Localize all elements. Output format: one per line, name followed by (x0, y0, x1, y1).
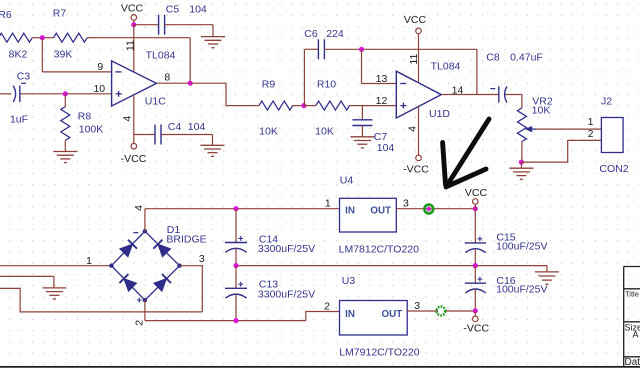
ground below C7 (350, 136, 374, 138)
bridge diode upper-right (158, 244, 171, 257)
svg-text:IN: IN (345, 206, 355, 217)
connector J2 CON2 (601, 118, 623, 153)
svg-text:VCC: VCC (404, 14, 427, 26)
svg-text:CON2: CON2 (599, 163, 628, 175)
wire J2 pin1 to wiper (536, 128, 601, 130)
svg-text:0.47uF: 0.47uF (510, 52, 543, 64)
svg-text:1uF: 1uF (10, 114, 28, 126)
svg-text:R10: R10 (317, 78, 336, 90)
svg-text:3: 3 (199, 253, 205, 265)
bridge pin 3 wire (180, 266, 203, 312)
svg-text:TL084: TL084 (146, 49, 176, 61)
capacitor C5 104 (158, 15, 160, 35)
resistor R6 (0, 33, 32, 42)
svg-text:1: 1 (325, 197, 331, 209)
svg-text:LM7812C/TO220: LM7812C/TO220 (339, 243, 420, 255)
capacitor C13 3300uF/25V (235, 266, 237, 289)
wire feedback top to output (98, 37, 190, 39)
wire feedback right vertical (476, 49, 478, 94)
svg-text:C3: C3 (17, 71, 31, 83)
ground left bottom (42, 287, 66, 289)
bridge pin 2 wire to negative rail (144, 300, 146, 320)
svg-text:4: 4 (407, 126, 419, 132)
capacitor C15 100uF/25V (474, 209, 476, 243)
node junction mid rail C15/C16 (473, 263, 478, 268)
node junction C16 bottom / -VCC (473, 308, 478, 313)
svg-text:2: 2 (324, 301, 330, 313)
svg-text:IN: IN (345, 309, 355, 320)
svg-text:U1C: U1C (145, 95, 166, 107)
VR2 wiper arrow (531, 128, 536, 130)
svg-text:R8: R8 (78, 111, 92, 123)
wire U3 output (407, 310, 475, 312)
bridge diode lower-left (124, 279, 137, 292)
svg-text:U4: U4 (340, 175, 354, 187)
bridge pin 4 wire to positive rail (144, 209, 146, 232)
svg-text:-VCC: -VCC (403, 163, 429, 175)
svg-text:3: 3 (403, 197, 409, 209)
svg-text:R7: R7 (53, 8, 67, 20)
bridge vertex dots (143, 229, 147, 233)
op-amp U1D pin 4 stem to -VCC (418, 106, 420, 155)
svg-text:A: A (633, 329, 639, 339)
svg-text:R9: R9 (262, 78, 276, 90)
bridge diode upper-left (120, 244, 133, 257)
output node junction U1C (188, 81, 193, 86)
wire J2 pin2 (521, 140, 601, 162)
svg-text:9: 9 (97, 61, 103, 73)
svg-text:Title: Title (625, 289, 639, 298)
resistor R9 10K (248, 105, 259, 107)
wire pin 14 output U1D (441, 94, 477, 96)
svg-text:1: 1 (588, 116, 594, 128)
svg-text:C8: C8 (486, 52, 500, 64)
svg-text:10K: 10K (532, 104, 551, 116)
node junction R9/R10/C6 (301, 103, 306, 108)
svg-text:100uF/25V: 100uF/25V (496, 241, 547, 253)
svg-text:100K: 100K (79, 123, 104, 135)
sheet bottom border (0, 366, 640, 368)
svg-text:LM7912C/TO220: LM7912C/TO220 (339, 347, 420, 359)
svg-text:-VCC: -VCC (121, 153, 147, 165)
wire VCC to C5 (134, 24, 159, 26)
node junction feedback/pin13 (359, 47, 364, 52)
capacitor C14 3300uF/25V (233, 206, 238, 211)
capacitor C6 224 feedback (303, 49, 305, 105)
wire pin 8 output (157, 82, 191, 84)
svg-text:13: 13 (376, 73, 388, 85)
svg-text:104: 104 (188, 121, 206, 133)
node A junction R6/R7 (40, 35, 45, 40)
node junction VCC rail (473, 206, 478, 211)
wire node A to pin 9 (41, 38, 43, 72)
svg-text:U1D: U1D (429, 108, 450, 120)
regulator U3 LM7912C (340, 301, 408, 336)
svg-text:C6: C6 (304, 28, 318, 40)
svg-text:BRIDGE: BRIDGE (166, 233, 206, 245)
svg-text:10: 10 (93, 83, 105, 95)
node junction C3/R8/pin10 (63, 91, 68, 96)
node junction VCC/C5/pin11 (131, 22, 136, 27)
svg-text:10K: 10K (315, 125, 334, 137)
svg-text:3: 3 (414, 300, 420, 312)
svg-text:U3: U3 (342, 275, 356, 287)
svg-text:4: 4 (133, 205, 145, 211)
op-amp U1C pin 4 stem to -VCC (133, 95, 135, 144)
svg-text:J2: J2 (601, 95, 612, 107)
power port -VCC below U1C (131, 143, 137, 149)
ground right of mid rail (546, 266, 548, 272)
capacitor C16 100uF/25V (474, 266, 476, 284)
svg-text:104: 104 (377, 142, 395, 154)
svg-text:TL084: TL084 (431, 61, 461, 73)
svg-text:OUT: OUT (370, 206, 391, 217)
node junction C14/C13 (233, 263, 238, 268)
potentiometer VR2 10K (521, 95, 523, 108)
green starburst marker on U3 output (438, 308, 444, 314)
svg-text:VCC: VCC (465, 187, 488, 199)
power port -VCC below U1D (416, 155, 422, 161)
node junction VR2/ground/J2-2 (519, 160, 524, 165)
wire output to R9 (190, 83, 248, 105)
power port -VCC bottom right (474, 311, 476, 316)
negative rail wire (145, 320, 306, 322)
svg-text:C4: C4 (168, 121, 182, 133)
svg-text:224: 224 (326, 28, 344, 40)
ground right of C5 (201, 36, 225, 38)
svg-text:Date: Date (625, 357, 640, 368)
wire U4 output (396, 208, 475, 210)
svg-text:10K: 10K (259, 125, 278, 137)
resistor R7 (42, 37, 53, 39)
ground right of C4 (201, 144, 225, 146)
capacitor C3 1uF (0, 93, 11, 95)
svg-text:3300uF/25V: 3300uF/25V (258, 243, 315, 255)
hand-drawn black arrow annotation (443, 119, 489, 187)
svg-text:100uF/25V: 100uF/25V (496, 284, 547, 296)
capacitor C7 104 (361, 106, 363, 120)
resistor R10 10K (304, 105, 316, 107)
wire AC input 1 to bridge (0, 265, 111, 267)
svg-text:VCC: VCC (121, 3, 144, 15)
positive rail wire to U4 (145, 208, 340, 210)
ground below R8 (53, 151, 77, 153)
svg-text:C5: C5 (166, 4, 180, 16)
svg-text:-VCC: -VCC (463, 322, 489, 334)
op-amp U1C pin 11 stem (133, 25, 135, 73)
svg-text:3300uF/25V: 3300uF/25V (258, 289, 315, 301)
op-amp U1D pin 11 stem (418, 34, 420, 83)
title block frame (624, 267, 640, 367)
svg-text:11: 11 (124, 40, 136, 51)
capacitor C8 0.47uF (477, 94, 499, 96)
bridge diode lower-right (154, 279, 167, 292)
svg-text:R6: R6 (0, 9, 12, 21)
svg-text:1: 1 (86, 255, 92, 267)
wire R10 to pin 12 (362, 105, 396, 107)
svg-text:39K: 39K (54, 49, 73, 61)
power port VCC right (474, 204, 476, 208)
svg-text:104: 104 (189, 4, 207, 16)
capacitor C4 104 (134, 134, 155, 136)
svg-text:11: 11 (408, 53, 420, 64)
svg-text:2: 2 (133, 320, 145, 326)
bridge rectifier D1 (111, 231, 179, 300)
node junction negative rail C13 (233, 318, 238, 323)
svg-text:12: 12 (376, 95, 388, 107)
green marker on U4 output (424, 205, 433, 214)
resistor R8 100K (64, 94, 66, 107)
bridge polarity marks (133, 232, 138, 234)
wire C3 to pin 10 (65, 93, 111, 95)
svg-text:8: 8 (164, 72, 170, 84)
wire AC input to ground (0, 275, 54, 277)
svg-text:4: 4 (122, 116, 134, 122)
regulator U4 LM7812C (340, 198, 397, 232)
wire AC input 2 lower (0, 288, 202, 312)
mid rail wire (236, 265, 547, 267)
svg-text:8K2: 8K2 (9, 49, 28, 61)
op-amp U1C TL084 (112, 61, 157, 106)
ground below VR2 (520, 162, 522, 168)
op-amp U1D TL084 (396, 71, 441, 118)
wire pin 13 (361, 49, 363, 83)
svg-text:OUT: OUT (382, 309, 403, 320)
wire negative rail to U3 input (306, 312, 340, 321)
svg-text:2: 2 (588, 128, 594, 140)
